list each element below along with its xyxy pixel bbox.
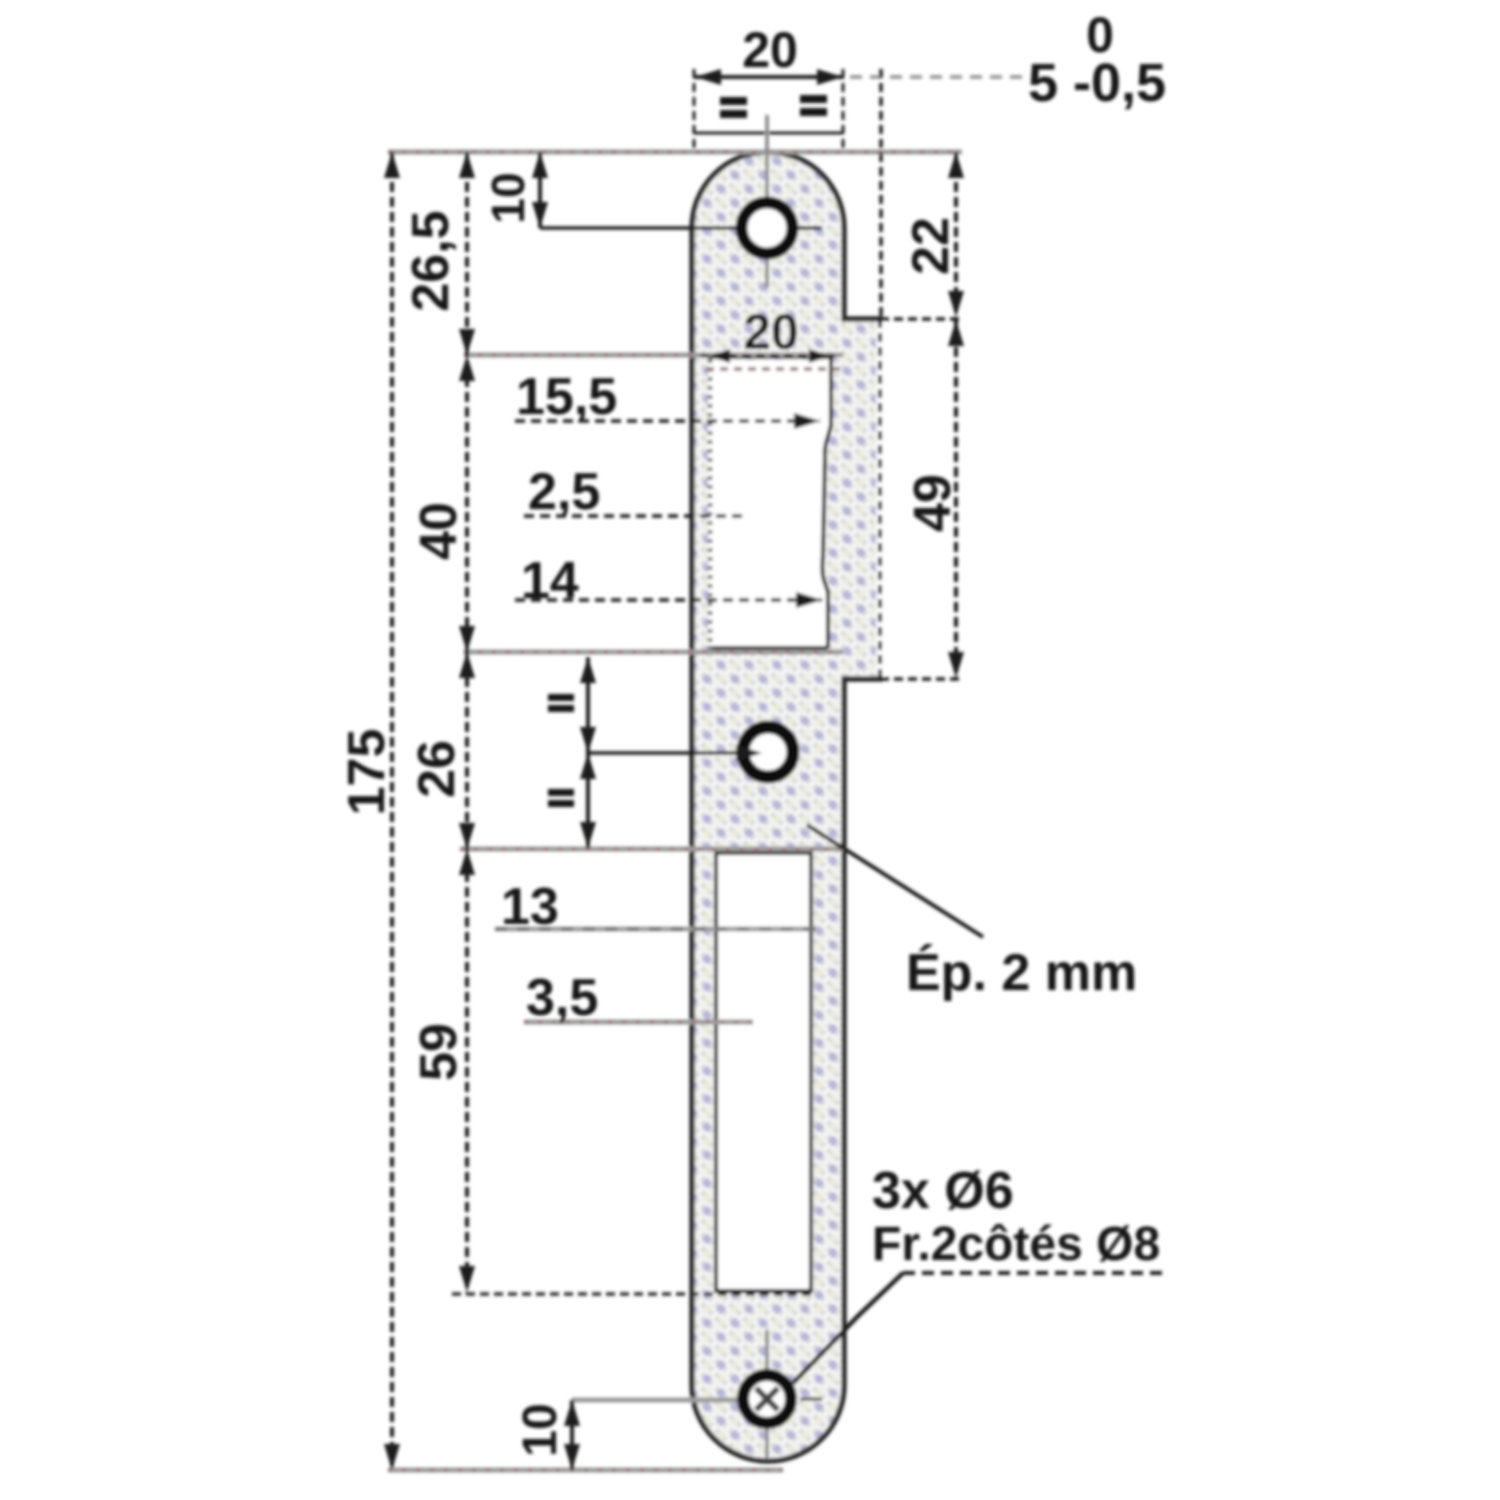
- leader 3x o6: [793, 1273, 903, 1383]
- upper cutout right wavy edge: [822, 357, 831, 648]
- svg-text:59: 59: [410, 1023, 468, 1081]
- svg-text:14: 14: [521, 552, 579, 610]
- upper cutout left edge (gray): [708, 359, 713, 650]
- leader mid hole y=753: [588, 751, 763, 755]
- svg-text:Ép. 2 mm: Ép. 2 mm: [906, 944, 1137, 1002]
- bottom hole screw detail: [756, 1388, 778, 1410]
- dim line 20 cutout (y=356): [700, 355, 838, 358]
- dim line 10 top (x=540): [538, 152, 542, 228]
- chain line y=1470 bottom reference: [388, 1468, 783, 1473]
- gray dashed leader to 5 -0,5: [850, 75, 1022, 79]
- dim line = (x=588): [586, 657, 590, 848]
- lip bottom extension y=679: [880, 677, 962, 681]
- svg-text:20: 20: [743, 304, 799, 360]
- svg-text:26,5: 26,5: [402, 210, 460, 311]
- middle hole: [743, 727, 793, 777]
- chain line y=152 top reference: [388, 150, 962, 155]
- dim line 14 (y=600): [515, 598, 822, 602]
- gray-red line 3,5: [524, 1020, 753, 1025]
- dim line 20 top (y=77): [694, 75, 844, 79]
- lip right edge dashed: [876, 322, 884, 676]
- bottom hole: [743, 1375, 791, 1423]
- dim line 22/49 (x=956): [954, 152, 958, 679]
- svg-text:3x Ø6: 3x Ø6: [872, 1162, 1014, 1220]
- gray line 13: [495, 927, 816, 932]
- extension lip x=881: [879, 69, 883, 319]
- dim line 175 (x=392): [390, 152, 394, 1470]
- dim chain line x=467: [465, 152, 469, 1293]
- svg-text:15,5: 15,5: [516, 368, 617, 426]
- upper cutout top edge: [708, 355, 831, 359]
- upper cutout (strike box opening): [708, 360, 831, 647]
- svg-text:26: 26: [408, 740, 466, 798]
- svg-text:13: 13: [501, 878, 559, 936]
- dim line 59 bottom dashed (y=1294): [452, 1292, 814, 1296]
- leader ep 2mm: [807, 825, 983, 937]
- chain line y=849: [460, 847, 843, 852]
- crosshair segment right of bottom hole: [800, 1398, 822, 1401]
- strike plate body with lip bump: [692, 152, 880, 1461]
- dim line 15,5 (y=421): [515, 419, 820, 423]
- upper cutout bottom edge: [708, 646, 828, 650]
- upper cutout top red-gray dashed line: [706, 367, 842, 371]
- gray leader y=1400 bottom hole: [572, 1398, 737, 1403]
- svg-text:10: 10: [514, 1403, 567, 1456]
- svg-text:2,5: 2,5: [528, 463, 600, 521]
- lower cutout: [716, 853, 811, 1291]
- dim line 2,5 (y=516): [524, 514, 748, 518]
- extension x=843: [842, 69, 845, 150]
- svg-text:20: 20: [742, 22, 798, 78]
- arrows: [384, 69, 964, 1470]
- extension x=694: [693, 69, 696, 150]
- svg-text:40: 40: [410, 502, 468, 560]
- dim line 10 bottom (x=572): [570, 1400, 574, 1470]
- svg-text:175: 175: [338, 729, 396, 816]
- bottom hole centerline vertical: [765, 1330, 769, 1459]
- equal marks top left: [548, 95, 827, 807]
- svg-text:5 -0,5: 5 -0,5: [1028, 53, 1166, 113]
- top hole centerline vertical: [765, 115, 769, 288]
- top hole: [742, 203, 793, 254]
- svg-text:10: 10: [482, 172, 534, 223]
- lip top extension y=319: [880, 317, 962, 321]
- svg-text:Fr.2côtés Ø8: Fr.2côtés Ø8: [872, 1218, 1160, 1271]
- leader top hole y=228: [540, 226, 822, 230]
- svg-text:49: 49: [904, 474, 962, 532]
- svg-text:3,5: 3,5: [526, 969, 598, 1027]
- box bottom line y=133: [694, 132, 843, 135]
- svg-text:22: 22: [902, 217, 960, 275]
- chain line y=652: [464, 650, 843, 655]
- chain line y=355: [464, 353, 843, 358]
